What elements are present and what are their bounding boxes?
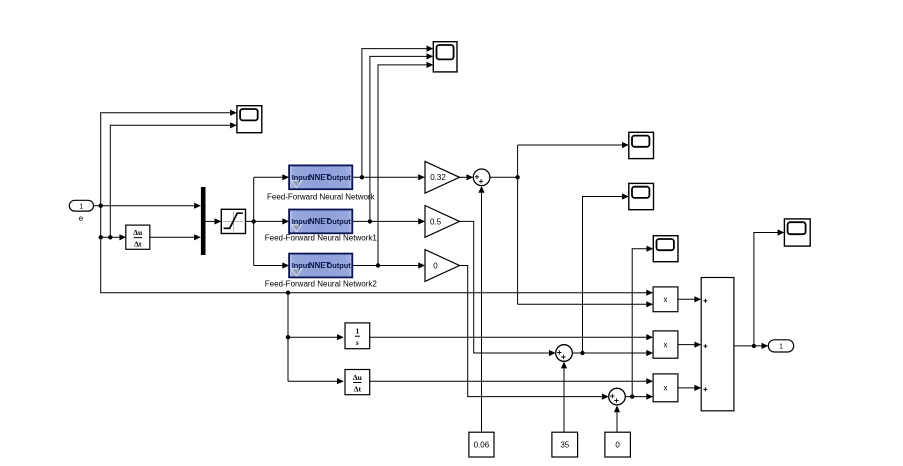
wire: constant 0 up to Sum3 [614,405,620,432]
wire: Add out to output port 1, branch up to Scope5 [734,229,785,349]
product Product1 [653,287,678,312]
svg-text:s: s [355,338,359,347]
constant 0 [605,432,631,457]
wire: constant 0.06 up to Sum1 [478,186,484,432]
scope Scope (left, 2 inputs) [237,106,262,133]
svg-text:Δt: Δt [354,384,362,393]
wire: NN3 branch up to Scope (top) input 3 [378,62,433,266]
wire: e to derivative du/dt input [101,234,127,240]
gain 0.5 [425,206,460,238]
svg-text:1: 1 [356,327,360,336]
constant 35 [552,432,578,457]
wire: e branch down and across to Product1 input 1 [99,206,654,296]
wire: gain 0.5 down to Sum2 [460,221,556,356]
svg-text:0: 0 [433,261,438,270]
saturation block [221,209,245,233]
derivative du/dt (bottom) [345,370,370,395]
svg-text:Feed-Forward Neural Network1: Feed-Forward Neural Network1 [265,234,378,243]
svg-text:0: 0 [615,440,620,449]
sum Sum3 [609,388,626,405]
wire: NN2 branch up to Scope (top) input 2 [370,53,433,221]
wire: e branch down to integrator and derivative2 [286,293,344,385]
svg-text:0.32: 0.32 [430,173,446,182]
svg-text:x: x [664,340,668,349]
wire: Product3 out to Add [678,385,701,391]
input port 1 (e) [69,200,93,211]
wire: NN3 out to gain 0 [352,262,425,268]
wire: integrator 1/s out to Product2 input 1 [370,334,653,340]
sum Sum1 [473,169,490,186]
svg-text:Input: Input [292,261,311,270]
svg-text:35: 35 [560,440,569,449]
wire: gain 0.32 to Sum1 [460,174,474,180]
wire: Sum2 out to Product2 input 2, branch up to Scope3 [572,193,653,356]
gain 0.32 [425,161,460,193]
svg-text:Δt: Δt [134,239,142,248]
wire: NN2 out to gain 0.5 [352,218,425,224]
wire: Product2 out to Add [678,342,701,348]
Feed-Forward Neural Network block [289,165,352,189]
output port 1 [768,340,793,352]
svg-text:x: x [664,295,668,304]
wire: e branch up to Scope (left) input 1 [101,110,237,206]
wire: saturation out to NN2 input, junction [246,218,290,224]
scope Scope (top, 3 inputs) [433,42,457,72]
svg-text:Input: Input [292,217,311,226]
wire: NN1 out to gain 0.32 [352,174,425,180]
scope Scope3 [629,183,654,209]
svg-text:Δu: Δu [133,228,143,237]
scope Scope4 [653,236,678,262]
wire: constant 35 up to Sum2 [561,362,567,433]
svg-text:1: 1 [79,201,83,210]
sum Sum2 [556,345,573,362]
product Product2 [653,331,678,358]
constant 0.06 [469,432,494,457]
wire: junction branch to NN1 and NN3 inputs [254,174,289,268]
svg-text:0.5: 0.5 [430,217,442,226]
wire: Product1 out to Add [678,296,701,302]
integrator 1/s [345,323,370,349]
wire: NN1 branch up to Scope (top) input 1 [362,46,433,178]
wire: branch up to Scope (left) input 2 [110,122,237,237]
wire: Sum3 out to Product3 input 2, branch up to Scope4 [625,246,653,400]
svg-text:Feed-Forward Neural Network2: Feed-Forward Neural Network2 [265,279,378,288]
svg-text:Output: Output [326,261,351,270]
wire: mux out to saturation [205,218,221,224]
wire: gain 0 down to Sum3 [460,266,609,400]
svg-text:Output: Output [326,217,351,226]
svg-text:1: 1 [779,342,783,351]
svg-text:Input: Input [292,173,311,182]
scope Scope5 [784,219,810,246]
wire: derivative2 out to Product3 input 1 [370,378,653,384]
svg-text:e: e [79,214,84,223]
wire: input e to mux [94,203,201,209]
wire: derivative out to mux input 2 [150,234,201,240]
wire: Sum1 out, junction, up to Scope2 and down to Product1 input 2 [490,142,653,308]
svg-text:Δu: Δu [353,373,363,382]
svg-text:Output: Output [326,173,351,182]
add block (3 inputs) [701,278,734,411]
derivative du/dt (left) [126,225,150,249]
product Product3 [653,374,678,402]
mux [201,187,206,255]
Feed-Forward Neural Network2 block [289,254,352,278]
scope Scope2 [629,132,654,158]
Feed-Forward Neural Network1 block [289,210,352,234]
svg-text:x: x [664,384,668,393]
gain 0 [425,250,460,282]
svg-text:Feed-Forward Neural Network: Feed-Forward Neural Network [267,193,376,202]
svg-text:0.06: 0.06 [474,440,490,449]
